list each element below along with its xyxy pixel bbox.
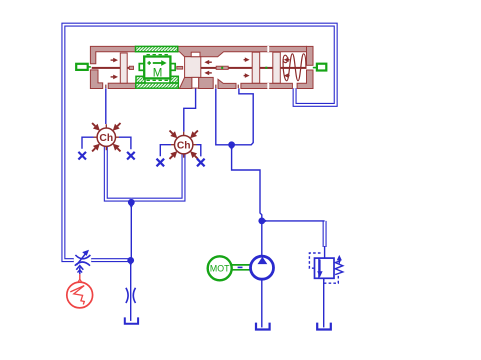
plus sign in motor box	[147, 61, 151, 65]
right green port	[317, 64, 326, 71]
svg-text:MOT: MOT	[210, 264, 230, 274]
white stem below land L2	[192, 77, 199, 88]
valve body top bar right with trapezoid slab	[178, 46, 307, 56]
flow arrow right upper mid2	[244, 57, 250, 62]
green node between lands	[265, 67, 267, 69]
flow arrow left upper spring chamber	[284, 57, 290, 62]
green dashes above motor box	[147, 54, 169, 56]
wire junction J2 through orifice to tank T1	[130, 260, 132, 321]
valve body cup right of stem	[199, 77, 214, 88]
port nub P1	[215, 85, 216, 89]
arrow in motor box	[153, 60, 167, 66]
left green port	[76, 64, 88, 70]
plug X4	[197, 159, 205, 167]
rod sleeve	[216, 66, 228, 69]
green hatched bottom right block	[170, 76, 178, 83]
control arrow from signal source	[76, 266, 83, 275]
wire valve port P1 to junction J3	[216, 88, 232, 144]
flow arrow left lower mid-section	[204, 71, 211, 76]
flow arrow right lower left-section	[111, 75, 118, 80]
valve body bottom right corner	[297, 70, 313, 89]
wire valve port A to Ch1	[105, 88, 107, 124]
port nub P2	[238, 85, 239, 89]
Ch2 port stubs	[171, 132, 197, 158]
motor box right stub	[170, 64, 175, 71]
Ch2 circle	[175, 136, 193, 154]
spring	[335, 261, 343, 275]
flow arrow left upper mid-section	[204, 60, 211, 65]
spool rod left section	[92, 67, 134, 69]
plug X1	[78, 152, 86, 160]
valve body bottom bar left section	[108, 83, 136, 88]
spool land L3	[252, 52, 260, 83]
wire junction J1 to junction J2	[130, 202, 132, 261]
wire Ch2 right to plug X4	[197, 145, 201, 157]
Ch1 inward arrows	[92, 123, 100, 131]
pipe from variable orifice to junction J2	[91, 258, 131, 262]
wire junction J3 down to pump junction J4	[232, 145, 262, 221]
wire junction J4 to pump inlet	[261, 221, 263, 257]
green hatched bottom left block	[136, 76, 145, 83]
green dashes below motor box	[147, 79, 169, 81]
wire valve port B to Ch2	[184, 88, 196, 132]
spool land L1	[120, 53, 127, 83]
right port connector line	[313, 67, 318, 69]
valve body left wall lower + lip	[90, 70, 102, 89]
motor box M	[144, 57, 170, 79]
spool land L4	[273, 52, 281, 83]
junction J2	[127, 257, 134, 264]
svg-text:Ch: Ch	[177, 140, 191, 151]
wire junction J4 to relief valve	[262, 220, 325, 222]
valve box	[315, 258, 335, 278]
rod end cap left section	[129, 66, 133, 69]
wire Ch2 left to plug X3	[160, 145, 171, 157]
rod stub between motor and land L2	[177, 66, 183, 69]
top bar slit	[267, 46, 269, 52]
Ch2 inward arrows	[170, 131, 198, 159]
Ch1 port stubs	[93, 124, 119, 150]
valve body cup left of stem	[179, 77, 192, 88]
white notch above land L2	[191, 52, 200, 57]
Ch1 circle	[97, 128, 115, 146]
junction J3	[228, 141, 235, 148]
left port connector line	[88, 66, 91, 68]
internal arrow down	[317, 260, 322, 278]
green node on sleeve	[221, 67, 223, 69]
wire Ch1 right to plug X2	[119, 137, 131, 149]
valve body right wall upper	[307, 46, 314, 65]
bottom bar slit	[267, 83, 269, 89]
plug X3	[157, 159, 165, 167]
green hatched top bar of motor section	[136, 46, 178, 51]
wire relief riser to valve box	[324, 246, 326, 258]
wire pump outlet to tank T2	[261, 279, 263, 327]
port nub A	[105, 85, 106, 89]
valve body bottom bar mid-right	[241, 83, 293, 88]
flow arrow right lower mid2	[244, 73, 250, 78]
adjustment arrow up	[337, 255, 342, 264]
pipe from chamber Ch2 bottom to junction J1	[131, 154, 183, 200]
pipe riser to relief valve V1	[323, 221, 327, 247]
flow arrow left lower spring chamber	[284, 73, 290, 78]
spool rod right section	[260, 67, 307, 69]
svg-text:M: M	[153, 67, 163, 79]
spool rod mid section	[201, 67, 253, 69]
spring coil	[283, 54, 306, 81]
plug X2	[127, 152, 135, 160]
drain dashed line	[324, 275, 339, 283]
pilot dashed line	[309, 253, 321, 268]
valve body top bar left + left wall upper	[90, 46, 135, 63]
svg-text:Ch: Ch	[99, 133, 113, 144]
motor box left stub	[139, 64, 144, 71]
variable orifice arrow	[76, 250, 89, 266]
junction J1	[128, 199, 135, 206]
wire Ch1 left to plug X1	[82, 137, 94, 149]
green hatched bottom bar	[136, 83, 179, 88]
pipe from chamber Ch1 bottom to junction J1	[106, 146, 132, 199]
wire valve port P2 to junction J3	[233, 88, 253, 144]
junction J4	[258, 218, 265, 225]
valve body bottom chamfer bar	[218, 79, 236, 88]
wire relief valve to tank T3	[323, 278, 325, 327]
main pipe loop (supply/return line around page)	[63, 25, 335, 261]
flow arrow right upper left-section	[111, 58, 118, 63]
spool land L2	[185, 57, 201, 78]
